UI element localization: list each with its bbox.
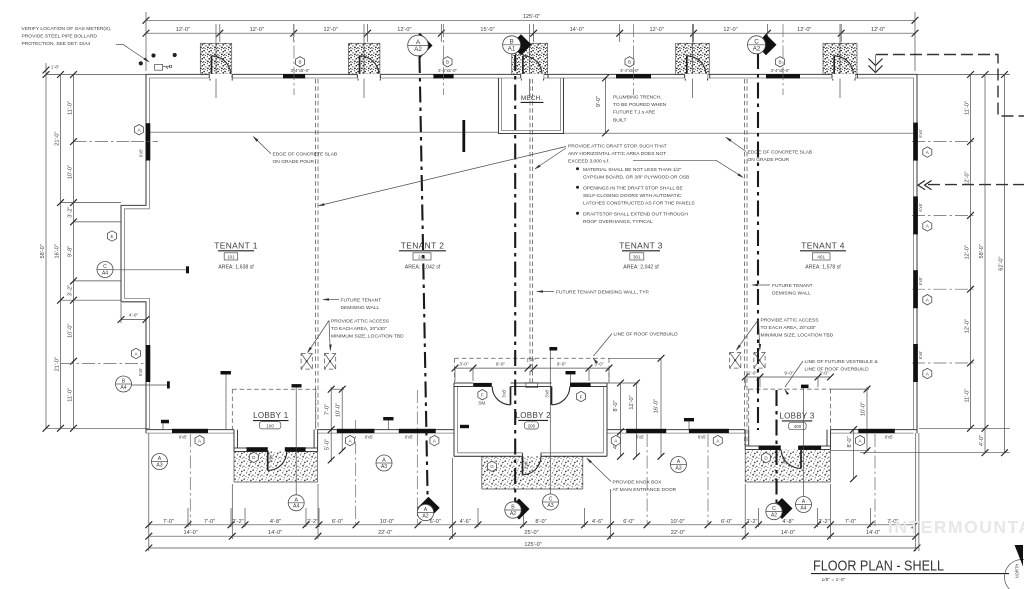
svg-text:DEMISING WALL: DEMISING WALL [341, 305, 380, 311]
svg-text:6'x5': 6'x5' [179, 434, 188, 439]
lobby 1 recess storefront wall [234, 447, 268, 449]
svg-text:AREA: 1,578 sf: AREA: 1,578 sf [805, 264, 841, 270]
svg-text:AREA: 1,638 sf: AREA: 1,638 sf [218, 264, 254, 270]
door alcove 4 centerline [692, 24, 694, 98]
lobby 2 east vertical dims 8'-0" 4'-0" [620, 383, 622, 457]
svg-text:15'-0": 15'-0" [480, 27, 494, 33]
svg-text:3'-2": 3'-2" [68, 285, 74, 296]
svg-text:MINIMUM SIZE, LOCATION TBD: MINIMUM SIZE, LOCATION TBD [761, 332, 834, 338]
svg-text:FUTURE T.J.s ARE: FUTURE T.J.s ARE [613, 110, 656, 116]
door tag hexagon G - lobby 2 entry [488, 461, 497, 471]
svg-text:NORTH: NORTH [1015, 564, 1020, 579]
svg-text:10'-0": 10'-0" [860, 402, 866, 416]
right wall tag hexagon A #3 [923, 295, 932, 305]
door alcove 2 jambs [357, 75, 359, 81]
svg-text:3'-4"x5'-0": 3'-4"x5'-0" [438, 68, 457, 73]
svg-text:A4: A4 [102, 270, 108, 276]
svg-text:125'-0": 125'-0" [524, 542, 541, 548]
svg-text:9'-8": 9'-8" [68, 246, 74, 257]
right wall tag hexagon A #1 [923, 147, 932, 157]
door alcove 3 stippled pier [512, 43, 548, 74]
svg-text:14'-0": 14'-0" [570, 27, 584, 33]
svg-text:ANY HORIZONTAL ATTIC AREA DOES: ANY HORIZONTAL ATTIC AREA DOES NOT [568, 151, 666, 157]
svg-text:6'x5': 6'x5' [918, 203, 923, 212]
svg-text:LINE OF ROOF OVERBUILD: LINE OF ROOF OVERBUILD [614, 332, 679, 338]
svg-text:9'-0": 9'-0" [557, 362, 567, 367]
svg-text:A2: A2 [422, 513, 428, 519]
svg-text:TENANT 1: TENANT 1 [214, 240, 258, 250]
svg-text:B: B [628, 60, 631, 65]
left wall shear panel 6'x5' [146, 123, 151, 160]
svg-text:14'-0": 14'-0" [183, 530, 197, 536]
svg-text:14'-0": 14'-0" [268, 530, 282, 536]
door alcove 2 stippled pier [348, 43, 380, 74]
svg-text:12'-0": 12'-0" [649, 27, 663, 33]
svg-text:MATERIAL SHALL BE NOT LESS THA: MATERIAL SHALL BE NOT LESS THAN 1/2" [583, 167, 682, 173]
svg-text:EXCEED 3,000 s.f.: EXCEED 3,000 s.f. [568, 159, 610, 165]
svg-text:2'-2": 2'-2" [818, 519, 829, 525]
svg-text:2'-2": 2'-2" [307, 519, 318, 525]
mech room walls [499, 78, 564, 134]
interior heavy tick below mech [462, 120, 465, 152]
leader to callout C/A3 - lobby 2 [549, 351, 551, 495]
lobby 3 east vertical dim 10'-0" [866, 387, 868, 451]
door B-3 header panel on north wall [616, 74, 651, 78]
section flag above lobby 2 [549, 347, 557, 351]
svg-text:MECH.: MECH. [521, 95, 542, 102]
future demising wall tenant 3/4 [744, 79, 746, 445]
svg-text:EDGE OF CONCRETE SLAB: EDGE OF CONCRETE SLAB [273, 152, 338, 158]
svg-text:4'-8": 4'-8" [782, 519, 793, 525]
door tag hexagon B-4 [776, 57, 785, 67]
svg-text:ON GRADE POUR: ON GRADE POUR [748, 157, 790, 163]
draft stop leader to tenant1/2 demising wall [320, 147, 567, 206]
door alcove 1 stippled pier [200, 43, 231, 74]
lobby 3 future vestibule dashed outline [749, 388, 831, 390]
wall tag hexagon A #6 [856, 435, 865, 445]
left dimension row 58'-0" (outer) [45, 75, 47, 429]
svg-text:6'x5': 6'x5' [139, 149, 144, 158]
svg-text:FLOOR PLAN - SHELL: FLOOR PLAN - SHELL [813, 559, 944, 575]
svg-text:DRAFTSTOP SHALL EXTEND OUT THR: DRAFTSTOP SHALL EXTEND OUT THROUGH [583, 211, 688, 217]
lobby 3 recess side walls [744, 430, 746, 450]
svg-text:SM.: SM. [478, 401, 486, 406]
bottom dimension extension lines [148, 433, 150, 551]
door alcove 2 centerline [363, 24, 365, 98]
svg-text:TO EACH AREA, 20"x30": TO EACH AREA, 20"x30" [761, 325, 817, 331]
door alcove 5 stippled pier [823, 43, 857, 74]
svg-text:C: C [103, 264, 107, 270]
callout A/A3 #3 [671, 457, 687, 473]
svg-text:6'x5': 6'x5' [138, 368, 143, 377]
svg-text:14'-0": 14'-0" [781, 530, 795, 536]
svg-text:3'-0": 3'-0" [459, 362, 469, 367]
lobby 2 south door jambs [522, 453, 524, 457]
edge of concrete slab line [150, 131, 499, 133]
lobby 1 entry door leaf and swing [267, 451, 269, 471]
svg-text:F: F [481, 393, 484, 398]
door tag hexagon F with SM - lobby 2 west door [478, 390, 487, 400]
svg-text:AREA: 2,042 sf: AREA: 2,042 sf [405, 264, 441, 270]
bollard dots [139, 61, 143, 65]
section flag above lobby 3 [801, 385, 809, 389]
svg-text:C: C [754, 38, 759, 45]
svg-text:7'-0": 7'-0" [845, 519, 856, 525]
section flag above storefront near grid B [566, 371, 576, 374]
svg-text:PROVIDE ATTIC ACCESS: PROVIDE ATTIC ACCESS [761, 318, 820, 324]
svg-text:12'-0": 12'-0" [965, 319, 971, 333]
svg-text:200: 200 [528, 424, 536, 429]
wall tag hexagon A #1 [195, 435, 204, 445]
storefront shear panel 6'x5' #1 [172, 429, 208, 433]
svg-text:10'-0": 10'-0" [336, 403, 342, 417]
grid line A (vertical dash-dot) [420, 57, 428, 497]
svg-text:1'-0": 1'-0" [526, 358, 536, 363]
svg-text:12'-0": 12'-0" [723, 27, 737, 33]
svg-text:A1: A1 [508, 45, 516, 52]
exterior wall - outer face [121, 74, 917, 433]
svg-text:11'-0": 11'-0" [965, 389, 971, 403]
top dimension extension lines [145, 12, 147, 71]
svg-text:AT MAIN ENTRANCE DOOR: AT MAIN ENTRANCE DOOR [613, 487, 677, 493]
svg-text:B: B [509, 38, 513, 45]
svg-text:A: A [416, 39, 421, 46]
door B-1 header panel on north wall [283, 74, 305, 78]
svg-text:A: A [677, 459, 681, 465]
callout B/A4 with leader [116, 376, 132, 392]
svg-text:C: C [772, 506, 776, 512]
svg-text:9'-0": 9'-0" [496, 362, 506, 367]
match line dashed east [928, 184, 1024, 186]
grid flag C/A2 top [756, 34, 777, 55]
svg-text:TO BE POURED WHEN: TO BE POURED WHEN [613, 102, 667, 108]
gas meter note leader [116, 44, 123, 46]
lobby 2 entry concrete pad (stipple) [482, 456, 583, 489]
svg-text:3'-4"x5'-0": 3'-4"x5'-0" [620, 68, 639, 73]
door B-2 centerline [443, 24, 445, 95]
svg-text:12'-0": 12'-0" [797, 27, 811, 33]
svg-text:2'-2": 2'-2" [232, 519, 243, 525]
door tag hexagon B-1 [296, 57, 305, 67]
svg-text:LINE OF FUTURE VESTIBULE &: LINE OF FUTURE VESTIBULE & [805, 359, 879, 365]
storefront wall (south) - double line, tenant 1 bay [146, 429, 234, 431]
svg-text:4'-0": 4'-0" [979, 435, 985, 446]
left dimension extension lines [46, 74, 146, 76]
door alcove 4 jambs [684, 75, 686, 81]
svg-text:1'-8": 1'-8" [51, 65, 60, 70]
svg-text:25'-0": 25'-0" [524, 530, 538, 536]
lobby 2 outer walls [453, 383, 455, 456]
svg-text:5'-0": 5'-0" [325, 439, 331, 450]
storefront wall east of lobby 3 [831, 429, 918, 431]
svg-text:22'-0": 22'-0" [378, 530, 392, 536]
svg-text:11'-0": 11'-0" [68, 101, 74, 115]
svg-text:PROVIDE STEEL PIPE BOLLARD: PROVIDE STEEL PIPE BOLLARD [22, 33, 98, 39]
svg-text:F: F [580, 394, 583, 399]
svg-text:ROOF OVERHANGS, TYPICAL: ROOF OVERHANGS, TYPICAL [583, 219, 653, 225]
callout C/A3 below lobby 2 [543, 494, 559, 510]
right wall shear panel 6'x5' #1 [913, 123, 918, 161]
exterior wall - inner face [125, 78, 914, 430]
right wall shear panel 6'x5' #2 [913, 196, 918, 234]
lobby 2 east vertical dim 12'-0" [635, 383, 637, 457]
attic access hatches (east pair) [730, 353, 741, 369]
svg-text:125'-0": 125'-0" [523, 14, 540, 20]
section flag east of lobby2 [684, 418, 694, 421]
svg-text:LOBBY 2: LOBBY 2 [516, 411, 552, 420]
svg-text:10'-0": 10'-0" [68, 324, 74, 338]
svg-text:A2: A2 [414, 46, 422, 53]
svg-text:3'-2": 3'-2" [68, 207, 74, 218]
lobby 1 recess side walls [233, 430, 235, 452]
svg-text:400: 400 [794, 424, 802, 429]
svg-text:1'-0": 1'-0" [748, 371, 758, 376]
svg-text:7'-0": 7'-0" [163, 519, 174, 525]
svg-text:B: B [446, 60, 449, 65]
svg-text:2'-2": 2'-2" [746, 519, 757, 525]
door B-3 centerline [633, 24, 635, 95]
svg-text:6'x5': 6'x5' [698, 434, 707, 439]
right wall tag hexagon A #2 [923, 221, 932, 231]
right wall tag hexagon A #4 [923, 368, 932, 378]
svg-text:PROVIDE ATTIC DRAFT STOP, SUCH: PROVIDE ATTIC DRAFT STOP, SUCH THAT [568, 144, 667, 150]
wall tag hexagon A #3 [430, 435, 439, 445]
bottom dimension row (bays) [149, 535, 916, 537]
svg-text:6'x5': 6'x5' [918, 351, 923, 360]
svg-text:DEMISING WALL: DEMISING WALL [772, 291, 811, 297]
svg-text:12'-0": 12'-0" [629, 395, 635, 409]
lobby 2 center column at north wall [526, 383, 538, 388]
svg-text:58'-0": 58'-0" [979, 244, 985, 258]
svg-text:100: 100 [266, 423, 274, 428]
svg-text:4'-0": 4'-0" [129, 313, 139, 318]
svg-text:12'-0": 12'-0" [176, 27, 190, 33]
leader to callout A/A4 - lobby 1 [295, 388, 297, 495]
svg-text:7'-0": 7'-0" [204, 519, 215, 525]
svg-text:A3: A3 [381, 464, 387, 470]
svg-text:16'-0": 16'-0" [55, 244, 61, 258]
svg-text:16'-0": 16'-0" [654, 399, 660, 413]
svg-text:22'-0": 22'-0" [671, 530, 685, 536]
top dimension row (bay spacing) [146, 32, 915, 34]
left wall lower shear panel [146, 345, 151, 382]
storefront shear panel 6'x5' #6 [858, 429, 895, 433]
svg-text:TENANT 4: TENANT 4 [801, 240, 845, 250]
draft stop leader to tenant3/4 demising wall [633, 159, 716, 161]
door tag hexagon D - lobby 3 [762, 453, 771, 463]
grid flag A/A2 top [408, 33, 433, 58]
notch dim 4'-0" [121, 319, 146, 321]
north arrow [1005, 560, 1024, 589]
lobby 2 north wall with door openings [454, 382, 473, 384]
svg-text:6'x5': 6'x5' [885, 434, 894, 439]
svg-text:10'-0": 10'-0" [380, 519, 394, 525]
svg-text:A: A [382, 458, 386, 464]
svg-text:3'x8': 3'x8' [523, 461, 528, 470]
lobby 3 entry concrete pad (stipple) [745, 450, 830, 483]
grid line B (vertical dash-dot) [514, 55, 516, 503]
svg-text:TENANT 3: TENANT 3 [619, 240, 663, 250]
svg-text:B: B [511, 505, 515, 511]
callout A/A4 below lobby 1 [288, 495, 304, 511]
svg-text:8'-0": 8'-0" [613, 400, 619, 411]
svg-text:3'x8': 3'x8' [269, 454, 274, 463]
svg-text:10'-0": 10'-0" [68, 165, 74, 179]
svg-text:AREA: 2,042 sf: AREA: 2,042 sf [623, 264, 659, 270]
door alcove 5 door leaf and swing [833, 56, 835, 78]
svg-text:11'-0": 11'-0" [68, 388, 74, 402]
callout A/A3 #2 [376, 455, 392, 471]
svg-text:201: 201 [418, 255, 426, 260]
svg-text:12'-0": 12'-0" [323, 27, 337, 33]
svg-text:GYPSUM BOARD, OR 3/8" PLYWOOD: GYPSUM BOARD, OR 3/8" PLYWOOD OR OSB [583, 174, 689, 180]
door alcove 3 centerline [529, 24, 531, 98]
svg-text:9'-0": 9'-0" [784, 371, 794, 376]
future demising wall tenant 1/2 [315, 79, 317, 430]
right wall shear panel 6'x5' #3 [913, 270, 918, 308]
lobby 2 roof overbuild dashed line [455, 357, 609, 359]
right dimension row (inner) [970, 75, 972, 429]
lobby 3 east vertical dim 8'-0" [853, 430, 855, 479]
svg-text:401: 401 [817, 255, 825, 260]
section flag east of lobby1 [383, 417, 393, 420]
match line chevron at east wall [918, 181, 932, 190]
callout A/A3 #1 [152, 454, 168, 470]
svg-text:LOBBY 3: LOBBY 3 [779, 411, 815, 420]
svg-text:12'-0": 12'-0" [397, 27, 411, 33]
door tag hexagon F - lobby 2 east door [577, 391, 586, 401]
centerline through left wall [131, 141, 158, 143]
svg-text:4'-6": 4'-6" [592, 519, 603, 525]
svg-text:A4: A4 [120, 385, 126, 391]
storefront wall between lobby 2 and lobby 3 [607, 429, 745, 431]
door tag hexagon B-2 [443, 57, 452, 67]
svg-text:A4: A4 [293, 504, 299, 510]
svg-text:E: E [110, 234, 113, 239]
section flag west of lobby2 [460, 425, 469, 428]
svg-text:4'-8": 4'-8" [270, 519, 281, 525]
door alcove 4 door leaf and swing [686, 56, 688, 78]
left dimension row (inner) [73, 75, 75, 429]
svg-text:6'x5': 6'x5' [918, 129, 923, 138]
svg-text:INTERMOUNTAIN: INTERMOUNTAIN [888, 517, 1024, 537]
svg-text:12'-0": 12'-0" [250, 27, 264, 33]
leader to callout A/A4 - lobby 3 [803, 388, 805, 496]
svg-text:C: C [549, 497, 553, 503]
left wall lower tag hexagon A [132, 348, 141, 358]
door alcove 5 jambs [832, 75, 834, 81]
svg-text:LOBBY 1: LOBBY 1 [253, 411, 289, 420]
storefront wall between lobby 1 and lobby 2 [318, 429, 454, 431]
svg-text:A: A [158, 456, 162, 462]
svg-text:A4: A4 [800, 505, 806, 511]
door alcove 3 jambs [520, 75, 522, 81]
bottom dimension row (storefront openings) [149, 524, 915, 526]
lobby 2 top dimension row [455, 367, 609, 369]
lobby 1 entry concrete pad (stipple) [234, 452, 318, 483]
section flag near tenant1 storefront [221, 371, 231, 375]
svg-text:6'x5': 6'x5' [405, 434, 414, 439]
lobby 2 south wall door opening with leaf and swing [522, 456, 524, 475]
svg-text:LINE OF ROOF OVERBUILD: LINE OF ROOF OVERBUILD [805, 367, 870, 373]
door B-2 header panel on north wall [433, 74, 453, 78]
door alcove 1 jambs [209, 75, 211, 81]
svg-text:OPENINGS IN THE DRAFT STOP SHA: OPENINGS IN THE DRAFT STOP SHALL BE [583, 185, 683, 191]
svg-text:B: B [122, 379, 126, 385]
grid flag C/A2 bottom [772, 498, 793, 519]
match line chevron at north wall [869, 59, 883, 73]
door tag hexagon B-3 [625, 57, 634, 67]
svg-text:7'-0": 7'-0" [325, 404, 331, 415]
right dimension row 58'-0" [984, 75, 986, 453]
lobby 2 east vertical dim 16'-0" [660, 358, 662, 456]
lobby 2 inner wall faces [457, 387, 459, 453]
svg-text:6'x5': 6'x5' [365, 434, 374, 439]
draft stop leader to tenant2/3 demising wall [536, 148, 567, 169]
gas meter symbol [155, 64, 163, 70]
svg-text:6'-0": 6'-0" [430, 519, 441, 525]
wall tag hexagon A #4 [611, 435, 620, 445]
lobby 3 top dimension row [745, 376, 830, 378]
svg-text:58'-0": 58'-0" [40, 244, 46, 258]
svg-text:B: B [778, 60, 781, 65]
svg-text:A2: A2 [771, 512, 777, 518]
door alcove 2 door leaf and swing [359, 56, 361, 78]
storefront shear panel 6'x5' #4 [626, 429, 666, 433]
edge of slab note west leader [254, 137, 272, 154]
wall opening gaps at alcoves [209, 74, 232, 79]
door B-1 centerline [293, 24, 295, 95]
storefront shear panel 6'x5' #2 [337, 429, 375, 433]
svg-text:6'x5': 6'x5' [918, 277, 923, 286]
grid flag B/A1 top [511, 34, 532, 55]
centerline extensions to bottom dimensions [189, 434, 191, 526]
svg-text:12'-0": 12'-0" [965, 171, 971, 185]
svg-text:A: A [294, 497, 298, 503]
svg-text:21'-0": 21'-0" [55, 131, 61, 145]
svg-text:A: A [802, 499, 806, 505]
svg-text:6'-0": 6'-0" [623, 519, 634, 525]
svg-text:8'-0": 8'-0" [535, 519, 546, 525]
svg-text:LATCHES CONSTRUCTED AS FOR THE: LATCHES CONSTRUCTED AS FOR THE PANELS [583, 200, 695, 206]
section flag west of lobby1 [161, 420, 169, 424]
svg-text:PROTECTION, SEE DET. D/A4: PROTECTION, SEE DET. D/A4 [22, 41, 91, 47]
svg-text:BUILT: BUILT [613, 117, 627, 123]
future canopy dashed line top right [876, 55, 1024, 117]
svg-text:A2: A2 [510, 511, 516, 517]
svg-text:ON GRADE POUR: ON GRADE POUR [273, 159, 315, 165]
edge of slab note east leader [726, 138, 746, 152]
lobby 2 north-east door leaf and swing [551, 387, 553, 405]
right dimension row 62'-0" (outer) [1004, 75, 1006, 453]
svg-text:A3: A3 [156, 462, 162, 468]
left wall tag hexagon A [135, 125, 144, 135]
svg-text:TO EACH AREA, 20"x30": TO EACH AREA, 20"x30" [331, 326, 387, 332]
wall tag hexagon A #2 [346, 435, 355, 445]
right wall shear panel 6'x5' #4 [913, 344, 918, 382]
door alcove 1 door leaf and swing [211, 56, 213, 78]
svg-text:8'-0": 8'-0" [847, 436, 853, 447]
lobby 1 side vertical dim 10'-0" [341, 387, 343, 451]
storefront shear panel 6'x5' #5 [689, 429, 729, 433]
future demising wall tenant 2/3 [529, 79, 531, 383]
lobby 1 roof overbuild dashed outline [232, 388, 315, 390]
mech 9'-0" vertical dim [605, 77, 607, 133]
svg-text:4'-6": 4'-6" [460, 519, 471, 525]
svg-text:9'-0": 9'-0" [596, 96, 602, 107]
door alcove 4 stippled pier [676, 43, 710, 74]
hexagon E on left wall [108, 231, 117, 241]
